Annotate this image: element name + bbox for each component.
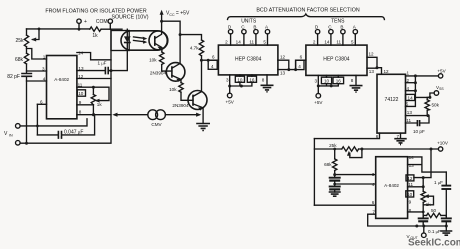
svg-text:50k: 50k xyxy=(432,103,440,108)
svg-text:A-8402: A-8402 xyxy=(384,183,399,188)
svg-text:3: 3 xyxy=(42,66,45,71)
svg-text:13: 13 xyxy=(409,163,415,168)
svg-text:1 µF: 1 µF xyxy=(98,60,107,65)
svg-text:1: 1 xyxy=(43,54,46,59)
svg-text:13: 13 xyxy=(407,110,413,115)
svg-text:13: 13 xyxy=(280,71,286,76)
svg-text:4: 4 xyxy=(407,86,410,91)
svg-text:3: 3 xyxy=(315,79,318,84)
svg-text:9: 9 xyxy=(409,200,412,205)
svg-text:3: 3 xyxy=(372,172,375,177)
svg-text:1 µF: 1 µF xyxy=(434,180,443,185)
svg-text:14: 14 xyxy=(408,96,414,101)
svg-text:+: + xyxy=(84,19,87,25)
svg-text:4: 4 xyxy=(43,76,46,81)
svg-text:82 pF: 82 pF xyxy=(7,74,20,80)
svg-text:12: 12 xyxy=(369,52,375,57)
svg-text:68k: 68k xyxy=(15,57,24,63)
svg-text:4: 4 xyxy=(211,64,214,69)
svg-text:10k: 10k xyxy=(149,58,157,63)
svg-text:2: 2 xyxy=(225,40,228,45)
svg-text:11: 11 xyxy=(408,182,413,187)
svg-text:12: 12 xyxy=(280,55,286,60)
svg-text:14: 14 xyxy=(236,40,242,45)
svg-text:10: 10 xyxy=(324,78,330,83)
svg-text:12: 12 xyxy=(384,69,390,74)
svg-text:+10V: +10V xyxy=(437,141,449,146)
svg-text:8: 8 xyxy=(351,78,354,83)
svg-text:10: 10 xyxy=(78,91,84,96)
svg-text:B: B xyxy=(340,25,343,30)
svg-text:10 pF: 10 pF xyxy=(413,129,425,134)
svg-text:HEP C3804: HEP C3804 xyxy=(235,56,262,62)
svg-text:2: 2 xyxy=(313,40,316,45)
svg-text:UNITS: UNITS xyxy=(241,19,257,25)
svg-text:+5V: +5V xyxy=(437,68,446,73)
svg-text:11: 11 xyxy=(336,40,341,45)
svg-text:1: 1 xyxy=(407,71,410,76)
svg-text:10: 10 xyxy=(407,192,413,197)
svg-text:4.7k: 4.7k xyxy=(190,46,199,51)
svg-text:COM: COM xyxy=(96,19,108,25)
svg-text:5: 5 xyxy=(406,102,409,107)
svg-text:4: 4 xyxy=(372,182,375,187)
svg-text:2: 2 xyxy=(407,78,410,83)
svg-text:6: 6 xyxy=(212,54,215,59)
svg-text:CMV: CMV xyxy=(151,122,162,127)
svg-text:25k: 25k xyxy=(15,38,24,44)
svg-text:8: 8 xyxy=(262,77,265,82)
svg-text:SeekIC.com: SeekIC.com xyxy=(408,238,460,249)
svg-text:14: 14 xyxy=(409,155,415,160)
svg-text:68k: 68k xyxy=(324,162,332,167)
svg-text:A-8402: A-8402 xyxy=(54,77,69,82)
svg-text:74122: 74122 xyxy=(385,97,399,103)
svg-text:16: 16 xyxy=(336,78,342,83)
svg-text:6: 6 xyxy=(40,100,43,105)
svg-text:B: B xyxy=(253,25,256,30)
svg-text:IN: IN xyxy=(9,134,13,138)
svg-text:BCD ATTENUATION FACTOR SELECTI: BCD ATTENUATION FACTOR SELECTION xyxy=(256,8,359,14)
svg-text:10: 10 xyxy=(237,77,243,82)
svg-text:1k: 1k xyxy=(97,102,103,107)
svg-text:HEP C3804: HEP C3804 xyxy=(323,57,350,63)
svg-text:6: 6 xyxy=(372,200,375,205)
svg-text:SOURCE (10V): SOURCE (10V) xyxy=(111,15,148,21)
svg-text:0.1 µF: 0.1 µF xyxy=(428,229,441,234)
svg-text:4: 4 xyxy=(298,64,301,69)
svg-text:2N3904: 2N3904 xyxy=(172,103,189,108)
svg-text:14: 14 xyxy=(324,40,330,45)
svg-text:16: 16 xyxy=(249,77,255,82)
svg-text:3: 3 xyxy=(226,78,229,83)
svg-text:1k: 1k xyxy=(92,33,98,39)
svg-text:50: 50 xyxy=(431,208,437,213)
svg-text:5: 5 xyxy=(263,40,266,45)
svg-text:6: 6 xyxy=(376,134,379,139)
svg-text:+5V: +5V xyxy=(314,100,323,105)
svg-text:2N3904: 2N3904 xyxy=(150,70,167,75)
svg-text:25k: 25k xyxy=(329,143,337,148)
svg-text:5: 5 xyxy=(351,40,354,45)
svg-text:11: 11 xyxy=(249,40,254,45)
svg-text:8: 8 xyxy=(79,109,82,114)
svg-text:11: 11 xyxy=(406,118,411,123)
svg-text:6: 6 xyxy=(300,54,303,59)
svg-text:0.047 µF: 0.047 µF xyxy=(64,130,83,136)
svg-text:+5V: +5V xyxy=(226,100,235,105)
svg-text:12: 12 xyxy=(407,176,413,181)
svg-text:10k: 10k xyxy=(169,87,177,92)
svg-text:13: 13 xyxy=(369,69,375,74)
